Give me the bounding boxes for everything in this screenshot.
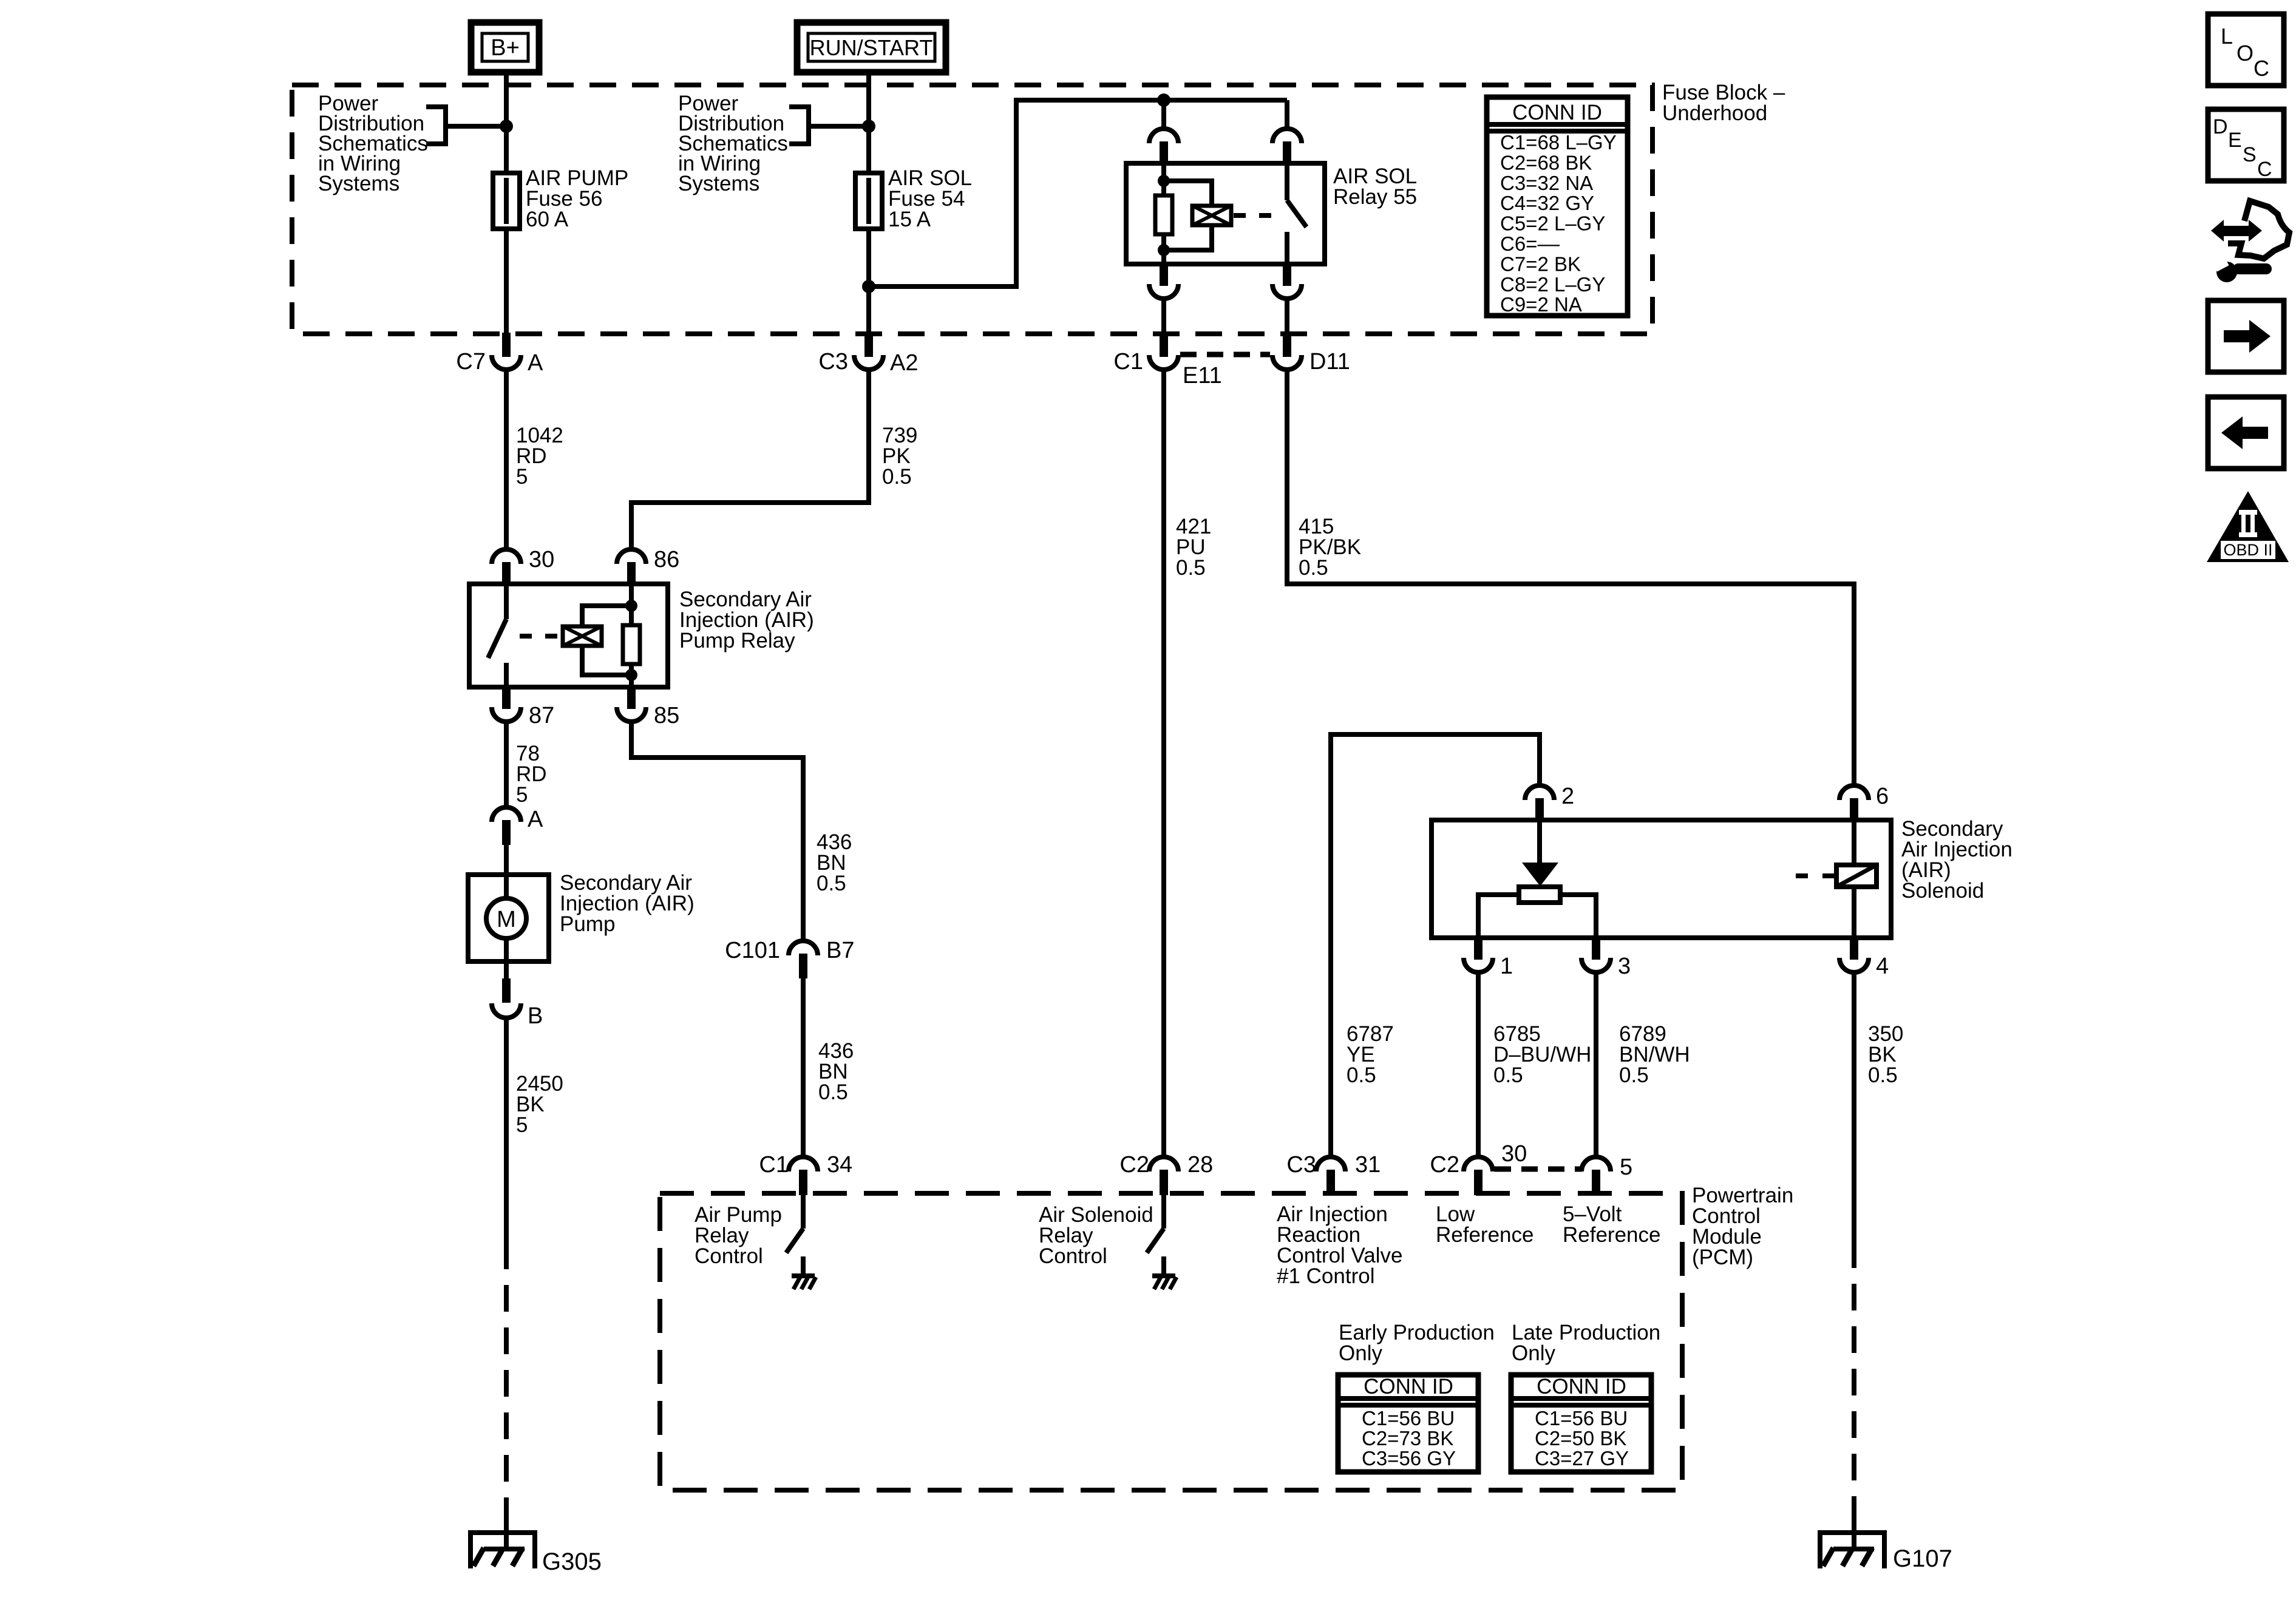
svg-text:0.5: 0.5 — [1299, 556, 1328, 580]
wire 1042 RD 5 — [504, 368, 509, 549]
relay 55 resistor — [1161, 163, 1166, 264]
pump relay resistor — [629, 584, 634, 687]
relay 55 coil — [1192, 206, 1231, 225]
svg-text:6: 6 — [1876, 784, 1889, 809]
svg-text:5: 5 — [516, 1113, 528, 1137]
svg-text:85: 85 — [654, 703, 679, 728]
connector D11 — [1283, 333, 1291, 357]
svg-text:C3=27 GY: C3=27 GY — [1535, 1447, 1629, 1470]
svg-text:C2=73 BK: C2=73 BK — [1362, 1427, 1453, 1449]
svg-text:Control: Control — [695, 1244, 763, 1268]
svg-text:C2: C2 — [1430, 1152, 1459, 1178]
PCM pin 5 — [1581, 1157, 1611, 1171]
svg-text:3: 3 — [1618, 954, 1631, 979]
svg-text:Pump Relay: Pump Relay — [679, 629, 795, 653]
svg-text:0.5: 0.5 — [818, 1080, 848, 1104]
wire 6787 YE 0.5 — [1331, 734, 1540, 1157]
svg-text:C7: C7 — [456, 349, 486, 375]
junction node branch — [862, 280, 875, 293]
wire 436 BN lower — [801, 978, 806, 1157]
pump relay pin 86 — [617, 549, 646, 564]
svg-text:OBD II: OBD II — [2223, 541, 2272, 559]
svg-text:S: S — [2243, 143, 2257, 166]
svg-text:D: D — [2213, 115, 2228, 138]
svg-text:B7: B7 — [826, 938, 854, 963]
svg-text:Underhood: Underhood — [1662, 101, 1767, 125]
connector body dashes C1 to D11 — [1180, 352, 1270, 358]
svg-text:C9=2 NA: C9=2 NA — [1500, 293, 1582, 316]
svg-text:(PCM): (PCM) — [1692, 1246, 1753, 1269]
AIR pump box — [468, 875, 549, 961]
ground air pump driver — [792, 1273, 815, 1278]
svg-text:C3=32 NA: C3=32 NA — [1500, 172, 1593, 194]
svg-text:Control: Control — [1039, 1244, 1107, 1268]
connector B pump — [504, 961, 509, 980]
wire RUN/START to fuse 54 — [866, 69, 871, 357]
wire 78 RD 5 — [504, 720, 509, 807]
wire 6785 D-BU/WH — [1476, 971, 1481, 1157]
fuse block underhood dashed box — [292, 85, 1652, 334]
connector A pump — [492, 807, 521, 822]
relay 55 pin top-right (30 side) — [1272, 129, 1302, 143]
solenoid coil — [1852, 820, 1856, 937]
relay 55 mechanical link — [1234, 213, 1275, 218]
ground G107 — [1818, 1530, 1887, 1535]
svg-text:C2: C2 — [1119, 1152, 1149, 1178]
wire relay55 to D11 — [1285, 297, 1289, 333]
svg-text:Solenoid: Solenoid — [1901, 879, 1984, 903]
svg-text:M: M — [497, 907, 516, 932]
svg-text:A2: A2 — [890, 350, 918, 376]
svg-text:0.5: 0.5 — [817, 872, 846, 895]
air pump relay control driver switch — [801, 1195, 806, 1229]
ground G305 — [468, 1530, 537, 1535]
svg-text:30: 30 — [529, 547, 554, 572]
sidebar OBD II symbol — [2207, 491, 2289, 562]
svg-text:B: B — [528, 1003, 543, 1029]
connector body dashes 30 to 5 — [1495, 1167, 1582, 1172]
relay 55 pin bottom-right — [1283, 263, 1291, 286]
svg-text:28: 28 — [1187, 1152, 1213, 1178]
fuse F54 AIR SOL — [855, 173, 882, 229]
svg-text:#1 Control: #1 Control — [1277, 1264, 1374, 1288]
connector C101-B7 — [789, 941, 818, 955]
svg-text:Only: Only — [1512, 1341, 1555, 1365]
solenoid wiper arrow — [1537, 820, 1542, 864]
svg-text:G107: G107 — [1893, 1545, 1952, 1572]
svg-text:C6=––: C6=–– — [1500, 232, 1560, 255]
svg-text:C: C — [2257, 158, 2272, 181]
AIR pump relay box — [469, 584, 668, 687]
CONN ID table late production — [1511, 1375, 1651, 1472]
relay 55 coil branch — [1164, 181, 1212, 206]
pump relay coil — [563, 626, 602, 646]
sidebar forward arrow button — [2208, 300, 2284, 372]
PCM dashed box — [660, 1193, 1682, 1490]
solenoid pin 6 — [1839, 785, 1869, 800]
bracket right note — [789, 107, 809, 144]
svg-text:Reference: Reference — [1563, 1223, 1660, 1247]
wire 739 PK 0.5 — [631, 368, 869, 549]
solenoid resistor leads — [1478, 895, 1519, 937]
pump relay pin 30 — [492, 549, 521, 564]
junction node relay55 coil feed — [1157, 93, 1170, 107]
svg-text:Systems: Systems — [678, 172, 759, 195]
svg-text:CONN ID: CONN ID — [1512, 101, 1602, 124]
svg-text:C1=56 BU: C1=56 BU — [1535, 1407, 1628, 1429]
svg-text:0.5: 0.5 — [1347, 1063, 1376, 1087]
sidebar DESC button — [2208, 109, 2284, 181]
solenoid position sensor resistor — [1519, 887, 1560, 903]
svg-text:Reference: Reference — [1436, 1223, 1533, 1247]
svg-text:C2=68 BK: C2=68 BK — [1500, 151, 1592, 174]
solenoid pin 4 — [1850, 937, 1858, 960]
svg-text:C1: C1 — [759, 1152, 789, 1178]
svg-text:0.5: 0.5 — [1619, 1063, 1649, 1087]
svg-text:B+: B+ — [491, 35, 520, 61]
svg-text:Relay 55: Relay 55 — [1333, 185, 1417, 209]
power feed RUN/START box — [797, 22, 946, 72]
svg-text:15 A: 15 A — [888, 208, 931, 231]
svg-text:E11: E11 — [1183, 363, 1222, 388]
pump relay coil branch — [582, 606, 631, 626]
svg-text:1: 1 — [1500, 954, 1513, 979]
fuse F56 AIR PUMP — [493, 173, 520, 229]
svg-text:Systems: Systems — [318, 172, 399, 195]
sidebar vehicle symbol icon — [2228, 201, 2289, 259]
junction node on RUN/START wire — [862, 120, 875, 133]
relay 55 branch nodes — [1158, 175, 1170, 187]
svg-text:G305: G305 — [542, 1548, 602, 1575]
svg-text:CONN ID: CONN ID — [1364, 1375, 1453, 1398]
svg-text:O: O — [2237, 41, 2254, 66]
svg-text:C101: C101 — [725, 938, 780, 963]
wire fuse 54 branch to relay 55 — [869, 100, 1287, 286]
wire relay55 to C1 — [1161, 297, 1166, 333]
svg-text:D11: D11 — [1309, 349, 1350, 375]
wire 436 BN upper — [631, 720, 803, 941]
svg-text:C2=50 BK: C2=50 BK — [1535, 1427, 1626, 1449]
sidebar wrench — [2216, 262, 2237, 282]
svg-text:C: C — [2254, 56, 2269, 81]
wire 350 BK — [1852, 971, 1856, 1241]
svg-text:C5=2 L–GY: C5=2 L–GY — [1500, 212, 1605, 235]
svg-text:C1=56 BU: C1=56 BU — [1362, 1407, 1455, 1429]
svg-text:31: 31 — [1355, 1152, 1381, 1178]
svg-text:Pump: Pump — [560, 912, 615, 936]
solenoid pin 3 — [1592, 937, 1600, 960]
solenoid pin 1 — [1474, 937, 1483, 960]
svg-text:C3: C3 — [818, 349, 848, 375]
wire 2450 BK 5 — [504, 1017, 509, 1242]
svg-text:A: A — [528, 350, 543, 376]
svg-text:5: 5 — [516, 465, 528, 489]
CONN ID table fuse block — [1487, 97, 1628, 316]
svg-text:E: E — [2228, 129, 2242, 152]
svg-text:C7=2 BK: C7=2 BK — [1500, 253, 1581, 275]
relay 55 switch — [1285, 163, 1289, 200]
wire relay55 pin feeds — [1161, 100, 1166, 129]
svg-text:60 A: 60 A — [526, 208, 569, 231]
connector C7-A — [502, 333, 511, 357]
PCM pin C2-30 — [1464, 1157, 1493, 1171]
svg-text:C3: C3 — [1286, 1152, 1316, 1178]
svg-text:87: 87 — [529, 703, 554, 728]
PCM pin C1-34 — [789, 1157, 818, 1171]
wire 421 PU 0.5 — [1161, 368, 1166, 1157]
svg-text:5: 5 — [516, 783, 528, 807]
air solenoid relay control driver switch — [1161, 1195, 1166, 1229]
connector C1-E11 — [1160, 333, 1168, 357]
svg-text:L: L — [2221, 24, 2233, 49]
svg-text:0.5: 0.5 — [1868, 1063, 1898, 1087]
solenoid pin 2 — [1525, 785, 1554, 800]
pump relay mechanical link — [520, 634, 561, 639]
svg-text:RUN/START: RUN/START — [810, 35, 933, 60]
pump relay switch — [504, 584, 509, 619]
wire 6789 BN/WH — [1594, 971, 1598, 1157]
svg-text:0.5: 0.5 — [1176, 556, 1206, 580]
svg-text:C8=2 L–GY: C8=2 L–GY — [1500, 273, 1605, 296]
sidebar back arrow button — [2208, 397, 2284, 469]
AIR SOL relay 55 box — [1126, 163, 1325, 264]
relay 55 pin bottom-left — [1160, 263, 1168, 286]
svg-text:C4=32 GY: C4=32 GY — [1500, 192, 1594, 214]
svg-text:0.5: 0.5 — [1493, 1063, 1523, 1087]
CONN ID table early production — [1338, 1375, 1478, 1472]
svg-text:C3=56 GY: C3=56 GY — [1362, 1447, 1456, 1470]
bracket left note — [426, 107, 446, 144]
pump relay branch nodes — [625, 600, 637, 612]
svg-text:Only: Only — [1339, 1341, 1382, 1365]
connector C3-A2 — [864, 333, 873, 357]
solenoid mechanical link — [1796, 873, 1835, 878]
wire A to pump — [504, 845, 509, 875]
svg-text:0.5: 0.5 — [882, 465, 912, 489]
AIR pump motor M — [486, 898, 526, 938]
PCM pin C3-31 — [1316, 1157, 1345, 1171]
ground air solenoid driver — [1152, 1273, 1175, 1278]
pump relay pin 87 — [502, 686, 511, 709]
AIR solenoid box — [1432, 820, 1891, 938]
pump relay pin 85 — [627, 686, 636, 709]
svg-text:2: 2 — [1561, 784, 1574, 809]
svg-text:C1=68 L–GY: C1=68 L–GY — [1500, 131, 1617, 154]
svg-text:C1: C1 — [1113, 349, 1143, 375]
PCM pin C2-28 — [1149, 1157, 1178, 1171]
svg-text:5: 5 — [1620, 1154, 1632, 1180]
junction node on B+ wire — [500, 120, 513, 133]
relay 55 pin top-left (85 side) — [1149, 129, 1178, 143]
svg-text:30: 30 — [1501, 1141, 1527, 1167]
svg-text:4: 4 — [1876, 954, 1889, 979]
wire 415 PK/BK 0.5 — [1287, 368, 1854, 785]
svg-text:A: A — [528, 807, 543, 832]
wire B+ to fuse 56 — [504, 69, 509, 357]
sidebar double arrow — [2222, 226, 2250, 236]
svg-text:86: 86 — [654, 547, 679, 572]
power feed B+ box — [471, 22, 539, 72]
sidebar LOC button — [2208, 14, 2284, 86]
svg-text:CONN ID: CONN ID — [1537, 1375, 1626, 1398]
svg-text:34: 34 — [827, 1152, 852, 1178]
